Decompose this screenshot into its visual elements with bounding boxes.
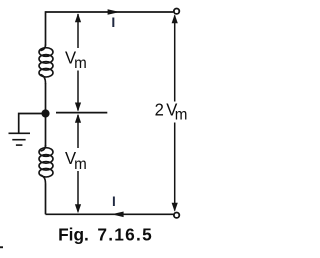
svg-text:2: 2 [155,100,164,119]
svg-text:m: m [175,106,188,123]
svg-text:I: I [111,14,115,30]
svg-text:I: I [112,194,116,209]
svg-text:m: m [74,54,87,71]
svg-text:7.16.5: 7.16.5 [97,224,153,244]
svg-text:Fig.: Fig. [58,224,89,244]
svg-text:m: m [74,156,87,173]
